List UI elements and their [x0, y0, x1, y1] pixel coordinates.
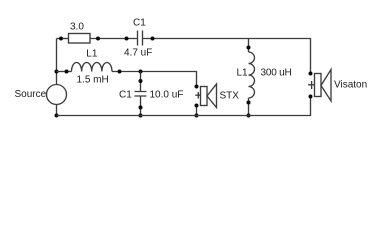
wire STX bottom — [196, 106, 198, 116]
label 300 uH — [261, 68, 292, 79]
capacitor C1 10uF bottom lead — [140, 96, 142, 116]
svg-text:Source: Source — [15, 89, 47, 100]
junction dot left rail — [55, 70, 59, 74]
wire stub inductor L1 300uH bottom — [248, 98, 250, 116]
terminal dot inductor right — [118, 70, 122, 74]
junction dot bottom left — [55, 114, 59, 118]
svg-text:L1: L1 — [237, 68, 249, 79]
terminal dot STX top — [195, 85, 199, 89]
label 1.5 mH — [77, 75, 109, 86]
wire second branch left — [57, 71, 72, 73]
label C1 — [119, 90, 132, 101]
terminal dot inductor top — [247, 46, 251, 50]
inductor L1 1.5mH — [72, 62, 112, 71]
svg-text:3.0: 3.0 — [70, 22, 84, 33]
label STX — [220, 91, 240, 102]
wire Visaton bottom to bottom rail — [57, 97, 311, 116]
capacitor C1 4.7uF plates — [138, 31, 143, 46]
resistor R1 3.0 ohm — [69, 34, 91, 44]
junction dot bottom rail inductor — [247, 114, 251, 118]
label L1 — [237, 68, 249, 79]
speaker Visaton cone — [321, 70, 331, 102]
svg-text:Visaton: Visaton — [334, 80, 367, 91]
junction dot capacitor branch — [139, 70, 143, 74]
svg-text:L1: L1 — [86, 49, 98, 60]
label Visaton — [334, 80, 367, 91]
terminal dot capacitor top — [139, 79, 143, 83]
label 3.0 — [70, 22, 84, 33]
svg-text:C1: C1 — [133, 18, 146, 29]
junction dot — [59, 37, 63, 41]
speaker Visaton box — [315, 74, 322, 97]
speaker STX plus sign — [195, 92, 201, 99]
wire inductor to STX corner — [112, 72, 197, 87]
svg-text:STX: STX — [220, 91, 240, 102]
terminal dot inductor left — [65, 70, 69, 74]
svg-text:4.7 uF: 4.7 uF — [124, 48, 152, 59]
label C1 — [133, 18, 146, 29]
capacitor C1 10uF plates — [135, 92, 147, 97]
speaker STX box — [201, 87, 208, 106]
terminal dot capacitor left — [125, 37, 129, 41]
source circle — [47, 85, 67, 105]
terminal dot Visaton bottom — [309, 95, 313, 99]
wire capacitor to top-right corner and down — [143, 39, 311, 74]
wire top rail — [57, 38, 69, 40]
label 4.7 uF — [124, 48, 152, 59]
wire resistor to capacitor — [90, 38, 138, 40]
svg-text:1.5 mH: 1.5 mH — [77, 75, 109, 86]
inductor L1 300uH — [249, 52, 255, 98]
junction dot bottom rail cap — [139, 114, 143, 118]
wire stub inductor L1 300uH top — [248, 39, 250, 53]
terminal dot resistor right — [96, 37, 100, 41]
junction dot bottom rail STX — [195, 114, 199, 118]
terminal dot STX bottom — [195, 104, 199, 108]
wire source to bottom rail — [56, 105, 58, 116]
svg-text:10.0 uF: 10.0 uF — [150, 90, 184, 101]
terminal dot capacitor bottom — [139, 106, 143, 110]
label 10.0 uF — [150, 90, 184, 101]
left rail wire — [56, 39, 58, 85]
terminal dot capacitor right — [151, 37, 155, 41]
svg-text:300 uH: 300 uH — [261, 68, 292, 79]
terminal dot inductor bottom — [247, 101, 251, 105]
label L1 — [86, 49, 98, 60]
speaker Visaton plus sign — [308, 81, 315, 89]
label Source — [15, 89, 47, 100]
terminal dot Visaton top — [309, 72, 313, 76]
capacitor C1 10uF top lead — [140, 72, 142, 92]
speaker STX cone — [207, 84, 217, 108]
svg-text:C1: C1 — [119, 90, 132, 101]
